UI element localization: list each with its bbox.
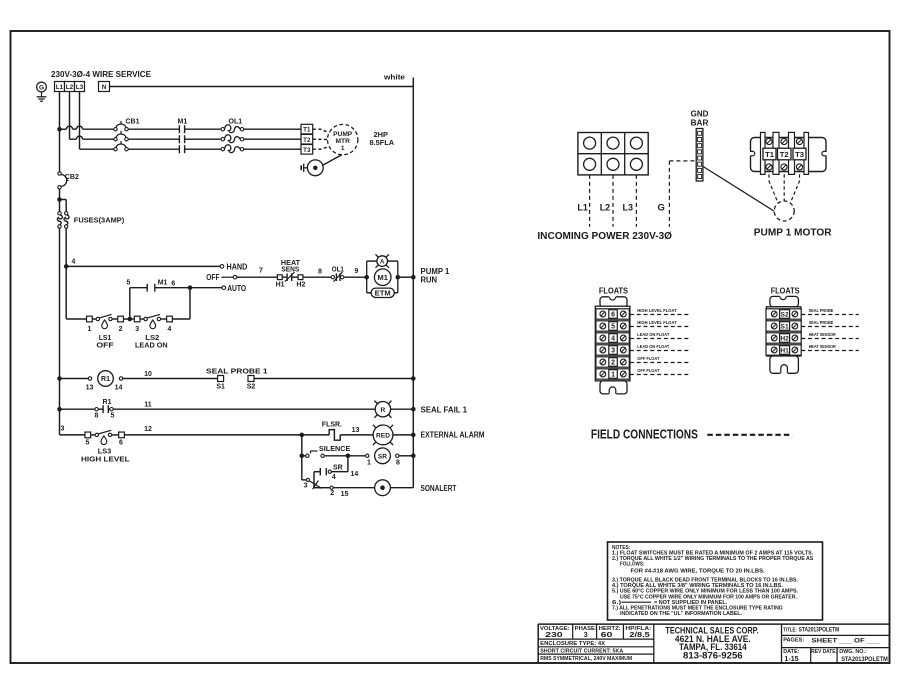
svg-text:N: N (102, 84, 107, 91)
terminal L2 (65, 82, 75, 92)
svg-text:M1: M1 (178, 119, 188, 126)
svg-text:SEAL PROBE 1: SEAL PROBE 1 (206, 366, 268, 375)
svg-text:SEAL PROBE: SEAL PROBE (809, 308, 834, 314)
svg-text:AUTO: AUTO (227, 284, 246, 293)
svg-text:CB2: CB2 (65, 174, 79, 181)
svg-text:MTR: MTR (336, 138, 351, 145)
svg-text:FLOATS: FLOATS (599, 286, 628, 296)
circuit breaker CB1 pole 1 (114, 128, 117, 131)
node seal-in branch (346, 454, 351, 459)
svg-text:8: 8 (95, 412, 99, 419)
svg-text:H1: H1 (780, 348, 789, 355)
notes box (608, 542, 823, 620)
svg-text:230: 230 (545, 632, 563, 639)
svg-text:LEAD ON FLOAT: LEAD ON FLOAT (637, 344, 669, 350)
svg-text:7: 7 (259, 268, 263, 275)
terminal T2 (301, 134, 313, 144)
dashed field wire float 1 (630, 374, 691, 376)
wire neutral N to right rail (110, 86, 414, 88)
pump 1 motor circle (774, 201, 794, 221)
svg-text:3: 3 (135, 326, 139, 333)
wire 6 to float line (189, 288, 191, 319)
svg-text:OFF: OFF (96, 340, 114, 349)
wire node to SR coil (348, 455, 366, 457)
left rail upper (59, 129, 61, 172)
terminal 2 (112, 318, 118, 320)
ground terminal G (37, 82, 47, 92)
svg-text:REV DATE:: REV DATE: (811, 649, 837, 655)
svg-text:A: A (380, 260, 385, 266)
wire sonalert to rail (390, 487, 413, 489)
relay coil R1 (88, 377, 91, 380)
terminal 2 horn contact (330, 486, 333, 489)
svg-text:2: 2 (611, 360, 615, 367)
dashed field wire H2 (801, 338, 859, 340)
motor block right notch (822, 151, 827, 156)
floats terminal 3 (596, 345, 629, 355)
floats terminal H1 (766, 345, 801, 355)
motor block screws bottom (766, 164, 772, 170)
svg-text:1: 1 (611, 372, 615, 379)
svg-text:L2: L2 (66, 84, 74, 91)
dashed lead T1 field (769, 174, 778, 203)
contactor M1 pole 2 (178, 135, 180, 143)
svg-text:STA2013POLETM: STA2013POLETM (841, 656, 888, 663)
svg-text:CB1: CB1 (126, 119, 140, 126)
terminal H2 (298, 275, 303, 280)
node rail rung 12 right (411, 433, 416, 438)
svg-text:OFF FLOAT: OFF FLOAT (637, 356, 659, 362)
node fuse split (57, 197, 62, 202)
wire rung to heat sensor (237, 276, 278, 278)
svg-text:60: 60 (601, 632, 613, 639)
wire L3 drop (79, 92, 81, 150)
node rail rung 11 right (411, 407, 416, 412)
coil group bracket (366, 261, 368, 293)
node rail rung 10 right (411, 376, 416, 381)
svg-text:FOLLOWS:: FOLLOWS: (620, 562, 645, 568)
terminal H1 (277, 275, 282, 280)
dashed wire G field (668, 161, 670, 227)
svg-text:HEAT SENSOR: HEAT SENSOR (809, 332, 837, 338)
svg-text:white: white (383, 75, 405, 82)
svg-text:G: G (658, 203, 665, 214)
circuit breaker CB2 (58, 172, 61, 175)
dashed field wire H1 (801, 350, 859, 352)
dashed wire L1 field (589, 175, 591, 227)
floats block 1 top tab (600, 297, 627, 308)
node rail rung 10 (57, 376, 62, 381)
wire PB to node (324, 455, 348, 457)
title block left grid (538, 638, 654, 640)
dashed field wire float 2 (630, 362, 691, 364)
svg-text:T3: T3 (795, 150, 804, 159)
wire alarm node down (301, 435, 303, 456)
svg-text:5: 5 (127, 279, 131, 286)
svg-text:L3: L3 (76, 84, 84, 91)
svg-text:G: G (39, 85, 44, 92)
terminal T1 (301, 124, 313, 134)
contact R1 NO (95, 408, 98, 411)
svg-text:SILENCE: SILENCE (319, 446, 351, 453)
svg-text:RMS SYMMETRICAL, 240V MAXIM: RMS SYMMETRICAL, 240V MAXIMUM (540, 656, 632, 662)
floats terminal 4 (596, 333, 629, 343)
svg-text:PUMP 1 MOTOR: PUMP 1 MOTOR (754, 227, 832, 239)
svg-text:PUMP: PUMP (333, 131, 353, 138)
terminal 3 (134, 316, 140, 322)
floats block 1 body (595, 306, 630, 381)
svg-text:OL1: OL1 (332, 266, 344, 273)
svg-text:L1: L1 (56, 84, 64, 91)
svg-text:H2: H2 (780, 336, 789, 343)
wire to OL1 contact (303, 276, 331, 278)
svg-text:T1: T1 (765, 150, 775, 159)
contact horn NC blade (314, 487, 330, 489)
dashed field wire float 3 (630, 350, 691, 352)
svg-text:2/8.5: 2/8.5 (629, 632, 649, 639)
svg-text:SONALERT: SONALERT (421, 484, 457, 493)
wire rung 12 to node (124, 434, 301, 436)
field connections dashed line (707, 434, 792, 436)
wire to sonalert (333, 487, 374, 489)
svg-text:813-876-9256: 813-876-9256 (683, 650, 743, 660)
terminal 4 (161, 318, 167, 320)
svg-text:5: 5 (86, 440, 90, 447)
wire rung 11 left (60, 408, 95, 410)
wire phase 3 OL1 to T3 (244, 148, 301, 150)
wire phase 1 CB1 to M1 (128, 128, 179, 130)
contactor M1 pole 3 (178, 145, 180, 153)
wire to coil group (344, 276, 367, 278)
dashed field wire S1 (801, 326, 859, 328)
svg-text:9: 9 (355, 268, 359, 275)
contact SR NO seal-in (331, 471, 348, 473)
dashed wire L3 field (635, 175, 637, 227)
terminal 3 horn contact (302, 479, 307, 481)
floats block 2 bottom tab (770, 356, 799, 373)
svg-text:FIELD CONNECTIONS: FIELD CONNECTIONS (591, 427, 698, 442)
motor terminal T3 label (793, 148, 806, 160)
node rail rung 11 (57, 407, 62, 412)
svg-text:OFF FLOAT: OFF FLOAT (637, 368, 659, 374)
node silence left (300, 454, 305, 459)
terminal 6 LS3 (112, 434, 119, 436)
svg-text:HP/FLA:: HP/FLA: (625, 626, 651, 632)
node alarm branch (300, 433, 305, 438)
floats terminal S1 (766, 321, 801, 331)
floats block 2 top tab (770, 296, 799, 306)
svg-text:FLOATS: FLOATS (771, 286, 800, 296)
left rail fuses to bottom (59, 228, 61, 435)
svg-text:M1: M1 (158, 279, 168, 286)
svg-text:13: 13 (86, 384, 94, 391)
wire feed 2 down to node 4 (65, 228, 67, 266)
svg-text:T3: T3 (303, 147, 311, 154)
svg-text:S1: S1 (216, 384, 225, 391)
motor block screws top (766, 138, 772, 144)
terminal 1 (87, 316, 93, 322)
svg-text:RED: RED (376, 432, 390, 439)
heat sensor contact NC (282, 276, 286, 278)
fuse F2 3A (65, 212, 68, 215)
wire auto branch (190, 287, 222, 289)
svg-text:5: 5 (611, 324, 615, 331)
dashed field wire float 4 (630, 338, 691, 340)
pilot light A amber (377, 256, 388, 267)
svg-text:8.5FLA: 8.5FLA (370, 138, 395, 147)
svg-text:HAND: HAND (227, 263, 248, 272)
terminal T3 (301, 145, 313, 155)
overload heater OL1 pole 2 (221, 138, 224, 141)
svg-text:T2: T2 (303, 137, 311, 144)
node rail pump1 run (411, 275, 416, 280)
svg-text:SEAL PROBE: SEAL PROBE (809, 320, 834, 326)
svg-text:T1: T1 (303, 127, 311, 134)
svg-text:H2: H2 (296, 281, 305, 288)
node rail silence right (411, 454, 416, 459)
wire line 4 to HAND (66, 265, 220, 267)
svg-text:S1: S1 (781, 324, 789, 331)
svg-text:ENCLOSURE TYPE: 4X: ENCLOSURE TYPE: 4X (540, 641, 605, 647)
motor terminal T1 label (763, 148, 776, 160)
contact FLSR flasher (329, 430, 340, 441)
pump motor terminal block body (751, 138, 827, 172)
floats terminal 1 (596, 369, 629, 379)
terminal 5 LS3 (85, 432, 91, 438)
svg-text:HIGH LEVEL FLOAT: HIGH LEVEL FLOAT (637, 308, 676, 314)
motor block barriers (761, 132, 766, 174)
svg-text:3: 3 (304, 483, 308, 490)
wire feed to terminal 1 (66, 318, 86, 320)
svg-text:6: 6 (119, 440, 123, 447)
svg-text:14: 14 (351, 471, 359, 478)
wire L2 drop (69, 92, 71, 140)
dashed lead T3 field (790, 174, 799, 203)
wire rung 11 to rail (391, 408, 414, 410)
wire rung 11 to pilot (113, 408, 375, 410)
wire rung 12 left (60, 434, 86, 436)
svg-text:HIGH LEVEL: HIGH LEVEL (81, 455, 130, 464)
svg-text:STA2013POLETM: STA2013POLETM (799, 627, 840, 634)
svg-text:GND: GND (691, 110, 709, 119)
svg-text:PHASE:: PHASE: (575, 626, 597, 632)
wire phase 2 M1 to OL1 (185, 138, 222, 140)
svg-text:4: 4 (71, 258, 75, 265)
svg-text:DATE:: DATE: (783, 649, 799, 655)
svg-text:R1: R1 (101, 376, 110, 383)
terminal L3 (75, 82, 85, 92)
svg-text:RUN: RUN (421, 275, 438, 284)
floats terminal 2 (596, 357, 629, 367)
wire rung 10 left (60, 378, 89, 380)
svg-text:EXTERNAL ALARM: EXTERNAL ALARM (421, 430, 485, 439)
svg-text:DWG. NO.:: DWG. NO.: (839, 649, 867, 655)
dashed field wire S2 (801, 314, 859, 316)
wire silence node down (301, 456, 303, 480)
overload heater OL1 pole 1 (221, 128, 224, 131)
wire feed 2 down to float line (65, 266, 67, 319)
floats terminal H2 (766, 333, 801, 343)
svg-text:2: 2 (119, 326, 123, 333)
wire phase 2 CB1 to M1 (128, 138, 179, 140)
wire branch to fuse 2 (60, 199, 67, 201)
floats block 1 bottom tab (600, 381, 627, 394)
pilot light R seal fail (375, 402, 390, 417)
svg-text:8: 8 (318, 269, 322, 276)
svg-text:VOLTAGE:: VOLTAGE: (540, 626, 570, 632)
fuse F1 3A (58, 212, 61, 215)
wire L1 drop (59, 92, 61, 130)
wire phase 1 OL1 to T1 (244, 128, 301, 130)
contact M1 seal-in NO (155, 287, 190, 289)
svg-text:15: 15 (341, 491, 349, 498)
float switch LS1 (92, 318, 96, 320)
svg-text:R: R (381, 407, 386, 414)
motor terminal T2 label (778, 148, 792, 160)
svg-text:5: 5 (111, 412, 115, 419)
wire phase 3 M1 to OL1 (185, 148, 222, 150)
wire phase 1 to CB1 (60, 128, 67, 130)
svg-text:BAR: BAR (691, 118, 709, 127)
right rail (412, 78, 414, 488)
terminal S1 (218, 376, 224, 382)
floats terminal 6 (596, 309, 629, 319)
motor ground lug (307, 160, 323, 176)
svg-text:ETM: ETM (375, 291, 391, 298)
svg-text:S2: S2 (247, 384, 256, 391)
dashed field wire float 6 (630, 314, 691, 316)
svg-text:PAGES:: PAGES: (783, 638, 804, 644)
circuit breaker CB1 pole 2 (114, 138, 117, 141)
svg-text:L3: L3 (623, 203, 634, 214)
title block frame (538, 623, 889, 625)
svg-text:L2: L2 (600, 203, 611, 214)
svg-text:T2: T2 (780, 150, 789, 159)
svg-text:FLSR.: FLSR. (322, 422, 342, 429)
wire phase 3 CB1 to M1 (128, 148, 179, 150)
ground wire to motor (703, 166, 774, 211)
svg-text:H1: H1 (276, 281, 285, 288)
svg-text:1: 1 (87, 326, 91, 333)
svg-text:12: 12 (144, 426, 152, 433)
svg-text:HIGH LEVEL FLOAT: HIGH LEVEL FLOAT (637, 320, 676, 326)
svg-text:L1: L1 (577, 203, 588, 214)
svg-text:1: 1 (367, 459, 371, 466)
svg-text:OFF: OFF (206, 273, 219, 282)
svg-text:2: 2 (330, 490, 334, 497)
svg-text:INDICATED ON THE "UL" INFORMAT: INDICATED ON THE "UL" INFORMATION LABEL. (620, 611, 743, 617)
svg-text:SHORT CIRCUIT CURRENT: 5KA: SHORT CIRCUIT CURRENT: 5KA (540, 649, 623, 655)
svg-text:SR: SR (378, 453, 387, 460)
float switch LS3 (91, 434, 95, 436)
wire SR contact down (313, 472, 315, 488)
wire branch down to SR contact (347, 456, 349, 472)
svg-text:SEAL FAIL 1: SEAL FAIL 1 (421, 406, 468, 415)
svg-text:230V-3Ø-4 WIRE SERVICE: 230V-3Ø-4 WIRE SERVICE (51, 70, 152, 79)
wire phase 3 to CB1 (80, 148, 114, 150)
wire rung 10 to probes (123, 378, 218, 380)
svg-text:4: 4 (611, 336, 615, 343)
svg-text:1-15: 1-15 (784, 656, 798, 663)
svg-text:13: 13 (352, 427, 360, 434)
svg-text:M1: M1 (377, 273, 388, 282)
node 5 tap (124, 318, 135, 320)
svg-text:LEAD ON: LEAD ON (135, 340, 168, 349)
terminal N (99, 82, 110, 92)
svg-text:OL1: OL1 (229, 119, 243, 126)
circuit breaker CB1 pole 3 (114, 148, 117, 151)
float switch LS2 (140, 318, 144, 320)
wire RED to rail (393, 434, 413, 436)
node 4 (64, 264, 69, 269)
svg-text:= NOT SUPPLIED IN PANEL.: = NOT SUPPLIED IN PANEL. (654, 600, 728, 606)
svg-text:3: 3 (61, 426, 65, 433)
svg-text:R1: R1 (103, 399, 112, 406)
node coil group right (396, 275, 401, 280)
svg-text:3: 3 (611, 348, 615, 355)
dashed lead T1 to motor (313, 129, 331, 133)
dashed lead T2 to motor (313, 138, 328, 140)
coil M1 (374, 276, 376, 278)
pushbutton SILENCE (302, 455, 306, 457)
motor ground wire (323, 155, 342, 166)
wire FLSR to RED (340, 434, 373, 436)
svg-text:HERTZ:: HERTZ: (599, 626, 621, 632)
wire coil group to rail (398, 276, 414, 278)
wire 5 tap down (129, 288, 131, 319)
svg-text:10: 10 (144, 371, 152, 378)
pilot light RED external alarm (373, 425, 393, 445)
node coil group left (364, 275, 369, 280)
terminal L1 (55, 82, 65, 92)
wire SR to rail (399, 455, 413, 457)
svg-text:SHEET ___ OF ___: SHEET ___ OF ___ (812, 637, 880, 644)
svg-text:SR: SR (333, 465, 343, 472)
svg-text:INCOMING POWER 230V-3Ø: INCOMING POWER 230V-3Ø (537, 230, 672, 242)
dashed wire L2 field (612, 175, 614, 227)
motor block left notch (749, 151, 754, 156)
selector HAND contact (220, 265, 224, 269)
svg-text:S2: S2 (781, 312, 789, 319)
wire node to FLSR (302, 434, 329, 436)
floats block 2 body (766, 307, 801, 356)
left rail CB2 to fuses (59, 189, 61, 212)
svg-text:4: 4 (168, 326, 172, 333)
node auto branch (188, 285, 193, 290)
svg-text:1: 1 (341, 145, 345, 152)
dashed lead T2 field (783, 174, 785, 201)
floats terminal 5 (596, 321, 629, 331)
title block right grid (782, 634, 890, 636)
svg-text:11: 11 (144, 402, 152, 409)
floats terminal S2 (766, 309, 801, 319)
wire rung 10 to rail (254, 378, 413, 380)
wire phase 1 M1 to OL1 (185, 128, 222, 130)
wire phase 2 to CB1 (70, 138, 77, 140)
terminal S2 (248, 376, 254, 382)
overload contact OL1 NC (331, 276, 334, 279)
overload heater OL1 pole 3 (221, 148, 224, 151)
incoming power terminal block (578, 133, 648, 175)
svg-text:6: 6 (611, 312, 615, 319)
svg-text:HEAT SENSOR: HEAT SENSOR (809, 344, 837, 350)
svg-text:FOR #4-#18 AWG WIRE, TORQUE: FOR #4-#18 AWG WIRE, TORQUE TO 20 IN.LBS… (631, 568, 766, 574)
svg-text:3: 3 (584, 632, 588, 639)
elapsed time meter ETM (371, 288, 394, 297)
selector AUTO contact (222, 286, 226, 290)
sonalert horn (375, 480, 391, 496)
svg-text:8: 8 (396, 459, 400, 466)
